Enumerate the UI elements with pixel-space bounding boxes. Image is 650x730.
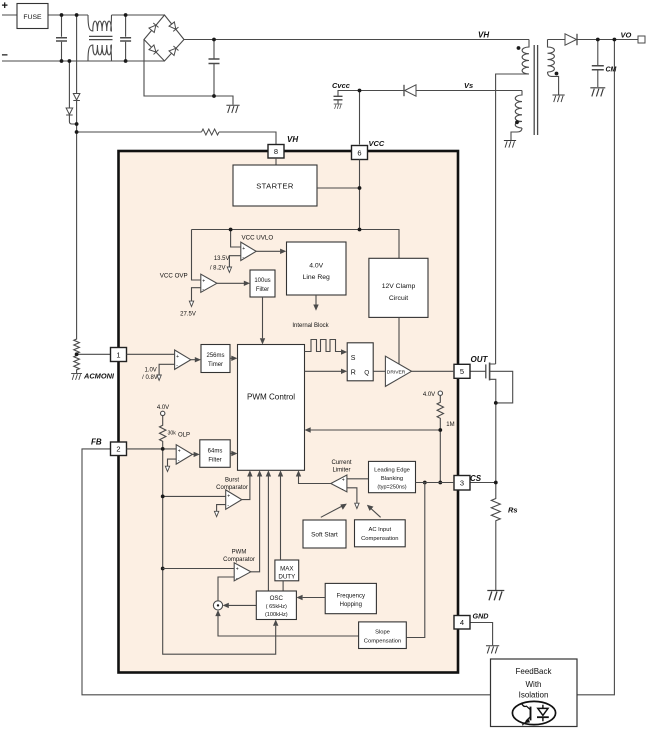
svg-text:+: + (178, 449, 181, 455)
wire OVP out (217, 282, 244, 284)
block 4.0V line reg (287, 242, 347, 295)
ground ACMONI (71, 374, 82, 380)
svg-text:3: 3 (460, 479, 464, 488)
wire VCC drop (359, 91, 361, 145)
op-amp OLP comparator (176, 445, 192, 464)
block PWM control (238, 345, 305, 471)
svg-text:Rs: Rs (508, 506, 518, 515)
capacitor C1 bulk (213, 40, 215, 97)
wire aux to ground (511, 128, 522, 140)
svg-text:FUSE: FUSE (23, 14, 42, 21)
svg-text:Vs: Vs (464, 81, 473, 90)
svg-text:R: R (351, 370, 356, 377)
svg-text:-: - (342, 487, 344, 493)
svg-text:64ms: 64ms (208, 449, 223, 455)
svg-text:+: + (236, 567, 239, 573)
svg-text:Internal Block: Internal Block (292, 323, 329, 329)
svg-text:VCC OVP: VCC OVP (160, 272, 188, 279)
block frequency hopping (325, 583, 376, 613)
node dots OCP (423, 428, 442, 484)
ground Rs (487, 591, 504, 601)
wire slope to multiplier (218, 616, 359, 636)
node aux phase dot (515, 120, 519, 124)
svg-text:STARTER: STARTER (256, 182, 294, 191)
pin 6 (352, 146, 368, 160)
svg-text:-: - (227, 503, 229, 509)
op-amp DRIVER (385, 356, 411, 386)
svg-text:Comparator: Comparator (223, 557, 255, 563)
svg-text:Slope: Slope (375, 630, 390, 636)
svg-text:4.0V: 4.0V (157, 405, 169, 411)
svg-text:Compensation: Compensation (364, 639, 401, 645)
wire burst ref (217, 505, 226, 512)
wire pwm to R input (305, 370, 342, 372)
svg-text:Frequency: Frequency (337, 594, 365, 600)
node 4.0V pullup terminal (161, 411, 165, 415)
wire max duty to osc (282, 581, 284, 591)
svg-text:VCC UVLO: VCC UVLO (242, 235, 274, 242)
svg-text:/ 8.2V: / 8.2V (210, 265, 226, 271)
node VO terminal (638, 36, 645, 43)
wire timer to pwm (230, 357, 232, 359)
resistor 30k (160, 416, 166, 449)
svg-text:Filter: Filter (256, 287, 269, 293)
wire VCC internal (359, 160, 361, 230)
wire pin1 external (77, 353, 111, 355)
op-amp OVP comparator (201, 274, 217, 292)
svg-text:+: + (202, 279, 205, 285)
block 12V clamp (369, 258, 428, 317)
wire clamp to driver (398, 317, 400, 364)
svg-text:+: + (2, 0, 8, 12)
resistor 1M (437, 395, 443, 482)
wire CS to slope compensation (406, 483, 425, 638)
svg-text:1M: 1M (446, 422, 454, 428)
wire secondary to ground (548, 72, 559, 95)
block soft start (303, 520, 346, 548)
svg-text:1.0V: 1.0V (144, 368, 156, 374)
svg-text:-: - (176, 363, 178, 369)
wire Q to driver (373, 370, 385, 372)
pin 4 (454, 616, 470, 630)
capacitor CM (597, 40, 599, 88)
wire pin1 to comparator (127, 353, 175, 355)
svg-text:−: − (2, 50, 8, 62)
node divider dots (161, 447, 165, 570)
svg-text:Hopping: Hopping (340, 602, 362, 608)
block STARTER (233, 165, 317, 206)
svg-text:8: 8 (274, 147, 278, 156)
wire OCP feedback to pwm (311, 429, 441, 431)
svg-text:VH: VH (478, 31, 489, 40)
diode D4 Vs rectifier (360, 90, 523, 92)
block SR latch (347, 343, 373, 381)
pin 8 (268, 145, 284, 159)
svg-text:OUT: OUT (471, 355, 489, 364)
svg-text:6: 6 (357, 148, 361, 157)
wire OVP ref (192, 288, 201, 301)
resistor divider ACMONI upper (74, 339, 80, 353)
svg-text:OLP: OLP (178, 432, 190, 438)
wire ACMONI drop (76, 132, 78, 340)
wire max duty to pwm (280, 477, 282, 561)
wire UVLO out (256, 250, 280, 252)
svg-text:PWM: PWM (232, 550, 247, 556)
pin 3 (454, 476, 470, 491)
svg-text:AC Input: AC Input (369, 527, 392, 533)
wire osc to pwm (267, 477, 269, 592)
ground aux (504, 141, 516, 148)
node junction dots outer (60, 13, 617, 484)
svg-text:/ 0.8V: / 0.8V (142, 375, 158, 381)
pin 1 (111, 348, 127, 362)
svg-text:27.5V: 27.5V (180, 312, 196, 318)
ground pin4 (486, 646, 499, 654)
wire comparator to timer (191, 359, 195, 361)
wire AC bottom (2, 60, 165, 62)
component FeedBack isolation box (491, 659, 578, 727)
svg-text:4: 4 (460, 618, 464, 627)
svg-text:+: + (227, 494, 230, 500)
wire bridge minus return (144, 40, 214, 97)
transformer T1 core (534, 45, 537, 135)
transformer T1 aux winding (515, 91, 522, 128)
svg-text:Limiter: Limiter (332, 468, 350, 474)
wire OVP tap (192, 230, 201, 281)
wire AC comp arrow (370, 507, 381, 517)
pin 5 (454, 364, 470, 378)
resistor divider ACMONI lower (74, 356, 80, 374)
wire pin2 to OLP comparator (127, 448, 177, 450)
wire FB external (82, 449, 491, 695)
svg-text:CM: CM (606, 67, 617, 74)
wire driver to pin5 (412, 370, 455, 372)
op-amp current limiter (331, 475, 347, 492)
svg-text:4.0V: 4.0V (309, 263, 323, 270)
svg-text:(typ=250ns): (typ=250ns) (377, 485, 406, 491)
node 4.0V OCP terminal (438, 391, 442, 395)
svg-text:Cvcc: Cvcc (332, 81, 351, 90)
inductor L1 common-mode choke (88, 15, 112, 31)
svg-text:Filter: Filter (208, 458, 221, 464)
svg-text:-: - (236, 576, 238, 582)
svg-text:13.5V: 13.5V (214, 256, 230, 262)
wire UVLO ref (229, 256, 240, 267)
svg-text:+: + (176, 354, 179, 360)
svg-text:2: 2 (116, 445, 120, 454)
svg-text:(100kHz): (100kHz) (265, 612, 288, 618)
svg-text:VCC: VCC (369, 139, 385, 148)
wire FB divider rail (163, 449, 276, 654)
diode D3 output rectifier (548, 39, 639, 41)
wire pin8 to starter (275, 158, 277, 165)
svg-text:PWM Control: PWM Control (247, 393, 295, 402)
wire VO feedback loop (577, 40, 614, 695)
svg-text:MAX: MAX (280, 566, 293, 573)
resistor Rs (491, 483, 500, 591)
wire LEB to limiter (347, 478, 369, 480)
wire osc to multiplier (229, 604, 257, 606)
wire OLP to filter (192, 453, 193, 455)
op-amp PWM comparator (234, 563, 251, 581)
block AC input compensation (355, 520, 406, 547)
svg-text:4.0V: 4.0V (423, 392, 435, 398)
wire choke to bridge (112, 14, 165, 16)
svg-text:100us: 100us (254, 278, 270, 284)
svg-text:Q: Q (364, 369, 369, 376)
diode D2 line from AC bottom (69, 61, 76, 124)
svg-text:VO: VO (621, 31, 632, 40)
svg-text:Burst: Burst (225, 477, 239, 483)
wire OLP ref (168, 459, 177, 466)
wire starter to vcc (317, 187, 360, 189)
svg-text:Circuit: Circuit (389, 295, 408, 302)
svg-text:256ms: 256ms (206, 353, 224, 359)
block 64ms filter (200, 440, 230, 468)
svg-text:Blanking: Blanking (381, 476, 403, 482)
bridge rectifier BD1 (144, 15, 184, 61)
wire limiter out to pwm (299, 477, 331, 484)
node primary phase dot (517, 46, 521, 50)
diode D1 line from AC top (76, 15, 78, 132)
svg-text:Isolation: Isolation (519, 691, 549, 700)
svg-text:ACMONI: ACMONI (83, 372, 115, 381)
wire soft start arrow (321, 506, 343, 518)
svg-text:Comparator: Comparator (216, 485, 248, 491)
pin 2 (111, 442, 127, 456)
wire multiplier to pwm comp (218, 577, 234, 601)
svg-text:12V Clamp: 12V Clamp (382, 283, 416, 290)
ground bridge cap (214, 96, 233, 105)
svg-text:( 65kHz): ( 65kHz) (266, 604, 287, 610)
svg-text:Compensation: Compensation (361, 536, 398, 542)
ground secondary (552, 95, 564, 102)
wire freq hopping to osc (303, 597, 326, 599)
wire CS external (470, 482, 496, 484)
op-amp ACMONI comparator (175, 350, 191, 369)
ground CM (590, 88, 605, 97)
svg-text:Current: Current (331, 460, 351, 466)
capacitor X2 (125, 15, 127, 61)
wire comparator ref 1.0V (159, 364, 175, 375)
svg-text:VH: VH (287, 135, 298, 144)
svg-text:DUTY: DUTY (278, 574, 295, 581)
svg-text:-: - (202, 287, 204, 293)
svg-text:CS: CS (470, 474, 482, 483)
svg-text:Line Reg: Line Reg (303, 274, 330, 281)
wire LEB to pin3 (416, 482, 455, 484)
svg-text:OSC: OSC (270, 595, 284, 602)
op-amp burst comparator (226, 490, 242, 509)
wire burst out to pwm (242, 477, 250, 500)
svg-text:-: - (178, 457, 180, 463)
node plus terminal (2, 0, 8, 12)
svg-text:Soft Start: Soft Start (311, 532, 338, 539)
svg-text:DRIVER: DRIVER (387, 370, 406, 376)
svg-text:S: S (351, 355, 356, 362)
svg-text:Timer: Timer (208, 362, 223, 368)
svg-text:Leading Edge: Leading Edge (374, 468, 410, 474)
transistor Q1 MOSFET (485, 364, 487, 378)
transformer T1 primary winding (522, 40, 529, 75)
wire filter to pwm (230, 453, 231, 455)
component optocoupler (512, 701, 555, 725)
capacitor Cvcc (338, 91, 360, 104)
fuse F1 (17, 4, 48, 29)
component multiplier (213, 601, 222, 610)
IC U1 body (119, 151, 459, 673)
transformer T1 secondary winding (548, 40, 555, 73)
svg-text:GND: GND (473, 612, 489, 621)
svg-text:+: + (342, 478, 345, 484)
node minus terminal (2, 50, 8, 62)
wire OUT gate (470, 370, 486, 372)
block OSC (256, 591, 296, 620)
svg-text:FB: FB (91, 438, 102, 447)
wire UVLO tap (231, 230, 241, 248)
wire VCC rail (192, 230, 400, 259)
ground Cvcc (334, 104, 343, 109)
wire pwm comp out (251, 477, 260, 572)
svg-text:30k: 30k (168, 431, 177, 437)
capacitor X1 (61, 15, 63, 61)
wire GND external (470, 623, 493, 646)
wire limiter ref (347, 488, 357, 503)
block 100us filter (250, 270, 275, 297)
resistor R startup (77, 132, 276, 145)
block 256ms timer (201, 345, 230, 373)
wire filter to pwm (262, 297, 264, 338)
op-amp UVLO comparator (241, 242, 256, 260)
svg-text:-: - (242, 255, 244, 261)
svg-text:FeedBack: FeedBack (515, 667, 552, 676)
block slope compensation (359, 622, 407, 649)
wire primary to drain (496, 74, 529, 364)
wire clock pulse into S (305, 340, 342, 352)
svg-text:+: + (242, 246, 245, 252)
node junction dots rail (229, 186, 362, 231)
svg-text:5: 5 (460, 367, 464, 376)
wire VH bus (184, 39, 529, 41)
wire AC top (2, 14, 88, 16)
node secondary phase dot (555, 72, 559, 76)
block leading edge blanking (369, 461, 416, 492)
svg-text:1: 1 (116, 350, 120, 359)
block MAX DUTY (275, 560, 299, 581)
wire internal block arrow (315, 295, 317, 305)
wire burst tap (163, 495, 226, 497)
svg-text:With: With (526, 680, 542, 689)
wire pwm comp tap (163, 568, 235, 570)
